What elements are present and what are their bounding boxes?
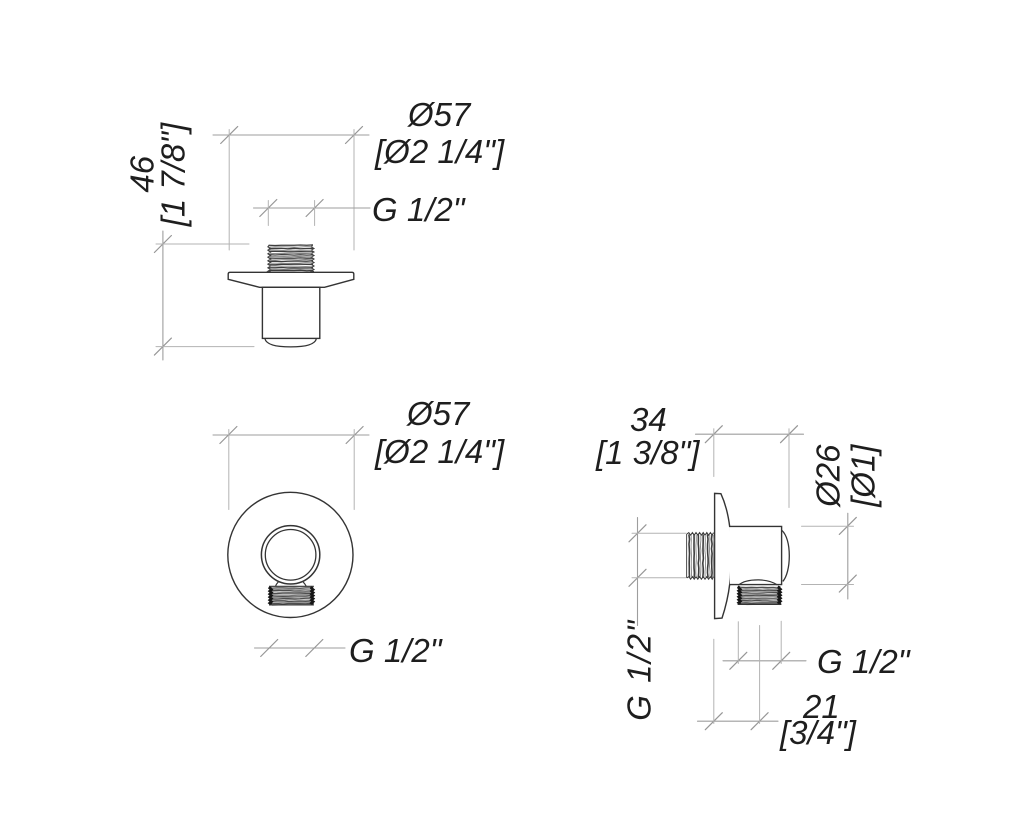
dim Ø57 right extension line (view 2) (353, 430, 355, 510)
outlet ring inner (view 2) (265, 530, 316, 581)
dim 46 vertical dimension line (view 1) (162, 231, 164, 360)
svg-text:G 1/2": G 1/2" (349, 632, 443, 669)
stub left extension line (view 3) (737, 622, 739, 664)
dim 46 bottom extension line (view 1) (156, 346, 254, 348)
cylindrical body (view 1) (262, 287, 319, 338)
dim G 1/2 dimension line (view 1) (254, 207, 371, 209)
dim Ø26 vertical dimension line (view 3 right) (847, 513, 849, 599)
outlet thread stub (view 3) (738, 586, 782, 605)
dim 34 left extension line (view 3) (713, 429, 715, 477)
left ear between ring and stub (view 2) (276, 582, 279, 586)
svg-text:G 1/2": G 1/2" (372, 191, 466, 228)
body cylinder (view 3) (729, 526, 782, 584)
dim 34 right extension line (view 3) (788, 429, 790, 508)
outlet ring outer (view 2) (261, 526, 319, 584)
outlet hump over stub (view 3) (739, 580, 778, 585)
svg-text:Ø26: Ø26 (810, 444, 847, 508)
svg-text:[3/4"]: [3/4"] (779, 714, 857, 751)
svg-text:Ø57: Ø57 (407, 96, 472, 133)
flange / wall plate (view 1) (228, 272, 354, 287)
svg-text:[1 3/8"]: [1 3/8"] (595, 434, 700, 471)
svg-text:Ø57: Ø57 (406, 395, 471, 432)
threaded stud G1/2 (view 1) (268, 245, 314, 273)
view 1: side elevation of wall union, threaded stud up (154, 127, 370, 361)
stud bottom extension line (view 3 left) (632, 577, 686, 579)
dim G 1/2 right extension line (view 1) (314, 201, 316, 226)
stub right extension line (view 3) (780, 621, 782, 663)
dim Ø57 left extension line (view 1) (228, 130, 230, 251)
svg-text:[Ø1]: [Ø1] (845, 444, 882, 508)
flange disc (view 2) (228, 492, 353, 617)
view 2: front view of wall flange with outlet ring (213, 427, 369, 657)
svg-text:G 1/2": G 1/2" (621, 619, 658, 720)
outlet thread stub (view 2) (269, 582, 314, 605)
dim Ø57 right extension line (view 1) (353, 130, 355, 251)
body bottom extension line (view 3 right) (802, 584, 854, 586)
stub centre extension line (view 3) (759, 626, 761, 724)
dim G 1/2 dimension line (view 2) (255, 647, 346, 649)
flange lens profile (view 3) (715, 493, 731, 618)
svg-text:[Ø2 1/4"]: [Ø2 1/4"] (374, 433, 505, 470)
svg-text:34: 34 (630, 401, 667, 438)
threaded stud G1/2 horizontal (view 3) (687, 533, 714, 580)
body end dome (view 3) (782, 530, 790, 581)
dim Ø57 left extension line (view 2) (228, 430, 230, 510)
flange face extension line (view 3) (713, 639, 715, 723)
right ear between ring and stub (view 2) (303, 582, 306, 586)
dim 21 dimension line (view 3) (698, 720, 779, 722)
svg-text:[Ø2 1/4"]: [Ø2 1/4"] (374, 133, 505, 170)
body top extension line (view 3 right) (802, 525, 854, 527)
dim G 1/2 bottom dimension line (view 3) (723, 660, 806, 662)
view 3: side elevation, stud towards wall (629, 426, 856, 730)
svg-text:G 1/2": G 1/2" (817, 643, 911, 680)
dim G 1/2 stud vertical dimension line (view 3 left) (637, 518, 639, 626)
dome bottom (view 1) (265, 339, 317, 347)
dim G 1/2 left extension line (view 1) (267, 201, 269, 226)
dim 46 top extension line (view 1) (156, 243, 249, 245)
dim Ø57 horizontal dimension line (view 1) (213, 134, 369, 136)
dim 34 dimension line (view 3) (696, 433, 804, 435)
svg-text:[1 7/8"]: [1 7/8"] (155, 122, 192, 227)
dim Ø57 dimension line (view 2) (213, 434, 369, 436)
stud top extension line (view 3 left) (632, 532, 686, 534)
